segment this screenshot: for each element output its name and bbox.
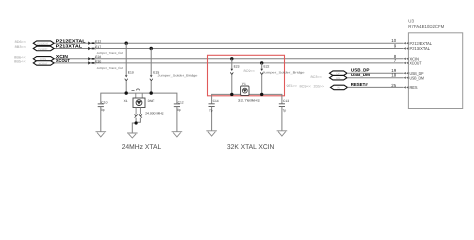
svg-text:E12: E12 — [95, 39, 101, 43]
svg-text:IN: IN — [337, 87, 340, 90]
pin 9 P213/XTAL — [394, 44, 431, 52]
svg-text:25: 25 — [391, 83, 396, 88]
pin 18 USB_DM — [391, 73, 424, 81]
wire USB_DM — [347, 77, 404, 79]
svg-text:24.000 MHz: 24.000 MHz — [145, 112, 164, 116]
svg-text:P212/EXTAL: P212/EXTAL — [410, 41, 433, 46]
wire XCIN — [54, 58, 404, 60]
svg-text:C10: C10 — [101, 100, 107, 104]
svg-text:XCOUT: XCOUT — [38, 62, 47, 65]
capacitor C12 — [174, 100, 184, 131]
capacitor C10 — [98, 100, 108, 131]
port flag XCOUT — [33, 61, 54, 66]
jumper trace cut E12 — [88, 39, 101, 45]
svg-text:18: 18 — [391, 73, 396, 78]
svg-text:2D5>>: 2D5>> — [314, 85, 325, 89]
svg-text:DM: DM — [336, 77, 340, 80]
svg-text:P213XT: P213XT — [38, 48, 48, 51]
wire E15 vertical lower — [150, 81, 152, 93]
svg-text:C14: C14 — [213, 99, 219, 103]
capacitor C13 — [279, 99, 289, 131]
junction dot wire2/E15 — [150, 47, 153, 50]
wire E23 vertical upper — [231, 59, 233, 69]
junction dot rail/E22 — [260, 93, 263, 96]
wire E23 vertical lower — [231, 75, 233, 95]
svg-text:32K XTAL XCIN: 32K XTAL XCIN — [227, 144, 275, 151]
svg-text:10: 10 — [391, 38, 396, 43]
port flag USB_DP — [330, 71, 348, 76]
wire E22 vertical lower — [261, 75, 263, 95]
port flag RESET — [331, 85, 348, 90]
red highlight box — [208, 55, 285, 96]
port flag XCIN — [33, 57, 54, 62]
wire E10 vertical upper — [125, 43, 127, 75]
svg-text:DP: DP — [336, 72, 340, 75]
svg-text:C12: C12 — [178, 100, 184, 104]
pin 10 P212/EXTAL — [391, 38, 432, 46]
capacitor C14 — [209, 99, 219, 131]
svg-text:DNF: DNF — [148, 99, 155, 103]
svg-text:8B3<<: 8B3<< — [15, 45, 26, 49]
wire RESET — [347, 86, 403, 88]
svg-text:P212EXT: P212EXT — [37, 43, 49, 46]
svg-text:8C9<<: 8C9<< — [300, 85, 311, 89]
pin 19 USB_DP — [391, 68, 423, 76]
svg-text:8D6<<: 8D6<< — [15, 40, 26, 44]
svg-text:Jumper_Solder_Bridge: Jumper_Solder_Bridge — [158, 73, 198, 77]
junction dot X1 ground — [135, 121, 138, 124]
junction dot rail/E23 — [230, 93, 233, 96]
svg-text:32.768kHz: 32.768kHz — [238, 98, 260, 102]
24M rail wire — [101, 93, 177, 104]
svg-text:C13: C13 — [283, 99, 289, 103]
ground X1 — [127, 133, 138, 138]
svg-text:RESET#: RESET# — [351, 82, 369, 87]
svg-text:8p: 8p — [177, 108, 181, 112]
junction dot wire3/E23 — [230, 57, 233, 60]
32K rail wire — [212, 94, 282, 103]
port flag USB_DM — [330, 75, 348, 80]
jumper trace cut E28 — [88, 55, 101, 60]
wire XCOUT — [54, 62, 404, 64]
jumper solder bridge E23 — [230, 65, 239, 75]
svg-text:7p: 7p — [283, 109, 287, 113]
ground C13 — [277, 131, 288, 136]
svg-text:24MHz XTAL: 24MHz XTAL — [122, 144, 162, 151]
wire E22 vertical upper — [261, 63, 263, 69]
wire E15 vertical upper — [150, 49, 152, 76]
svg-text:9E1>>: 9E1>> — [287, 84, 298, 88]
svg-text:E10: E10 — [128, 70, 134, 74]
svg-text:E23: E23 — [234, 65, 240, 69]
wire E10 vertical lower — [125, 81, 127, 93]
junction dot rail/E15 — [150, 91, 153, 94]
svg-text:E22: E22 — [264, 65, 270, 69]
svg-text:8C3<<: 8C3<< — [311, 75, 322, 79]
wire P213XTAL — [54, 48, 404, 50]
jumper trace cut E30 — [88, 59, 101, 64]
svg-text:R7FA4E10D2CFM: R7FA4E10D2CFM — [408, 24, 444, 29]
svg-text:USB_DM: USB_DM — [410, 75, 425, 80]
svg-text:RES: RES — [410, 85, 418, 90]
svg-text:8p: 8p — [101, 108, 105, 112]
junction dot rail/E10 — [125, 91, 128, 94]
svg-text:XCOUT: XCOUT — [410, 61, 422, 66]
pin 7 XCOUT — [394, 58, 422, 66]
svg-text:X1: X1 — [124, 99, 128, 103]
svg-text:P213XTAL: P213XTAL — [56, 44, 83, 49]
jumper solder bridge E10 — [125, 70, 134, 80]
X1 case jumper marks — [135, 114, 142, 117]
svg-text:P213/XTAL: P213/XTAL — [410, 46, 431, 51]
ground C12 — [172, 132, 183, 137]
port flag P212EXTAL — [33, 41, 54, 46]
svg-text:Jumper_Solder_Bridge: Jumper_Solder_Bridge — [263, 70, 305, 74]
wire USB_DP — [347, 72, 404, 74]
junction dot wire1/E10 — [125, 42, 128, 45]
pin 8 XCIN — [394, 54, 419, 62]
jumper trace cut E17 — [88, 45, 101, 50]
X1 case ground stubs — [135, 108, 137, 115]
junction dot wire4/E22 — [260, 61, 263, 64]
svg-text:XCOUT: XCOUT — [56, 58, 70, 63]
svg-text:Y1: Y1 — [242, 82, 246, 86]
svg-text:E17: E17 — [95, 45, 101, 49]
wire P212EXTAL — [54, 42, 404, 44]
svg-text:P212EXTAL: P212EXTAL — [56, 38, 86, 43]
svg-text:E30: E30 — [95, 59, 101, 63]
svg-text:7p: 7p — [209, 109, 213, 113]
ground C14 — [206, 131, 217, 136]
ground C10 — [96, 132, 107, 137]
jumper solder bridge E22 — [260, 65, 269, 75]
port flag P213XTAL — [33, 46, 54, 51]
IC U3 box — [408, 33, 462, 109]
pin 25 RES — [391, 83, 417, 90]
X1 ground wire — [132, 118, 140, 133]
crystal X1 — [124, 89, 164, 116]
svg-text:Jumper_Trace_Cut: Jumper_Trace_Cut — [97, 66, 124, 70]
crystal Y1 — [238, 82, 260, 102]
svg-text:8C9<<: 8C9<< — [244, 69, 255, 73]
svg-text:U3: U3 — [408, 18, 414, 23]
svg-text:8B5<<: 8B5<< — [14, 60, 25, 64]
jumper solder bridge E15 — [150, 70, 160, 80]
